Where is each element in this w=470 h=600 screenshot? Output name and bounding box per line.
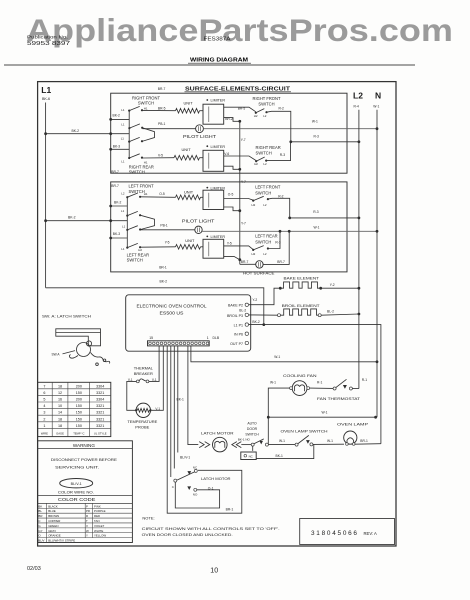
svg-text:WARNING: WARNING (73, 443, 95, 448)
svg-text:L1: L1 (121, 123, 125, 127)
svg-text:W-1: W-1 (279, 439, 285, 443)
svg-text:WIRE: WIRE (41, 431, 48, 435)
svg-text:GRAY: GRAY (48, 529, 56, 533)
svg-text:RED: RED (94, 514, 100, 518)
wire W-1 fan to N branch (268, 388, 289, 417)
svg-text:LEFT REAR: LEFT REAR (127, 252, 149, 257)
svg-text:Publication No.: Publication No. (27, 35, 68, 41)
svg-text:L1: L1 (121, 137, 125, 141)
svg-text:PB-1: PB-1 (158, 122, 165, 126)
svg-text:O-5: O-5 (159, 192, 165, 196)
svg-text:BK-1: BK-1 (276, 454, 283, 458)
wire R-1 fan to thermostat (310, 387, 334, 389)
svg-text:3304: 3304 (96, 398, 104, 402)
switch ganged link box1 (142, 128, 155, 142)
svg-text:3321: 3321 (96, 391, 104, 395)
svg-text:6: 6 (43, 391, 45, 395)
svg-text:BR-7: BR-7 (158, 87, 166, 91)
svg-text:Y: Y (86, 534, 88, 538)
wire left rear R-3 up to W-1b (268, 231, 280, 248)
latch cam (77, 343, 91, 357)
svg-text:COLOR WIRE NO.: COLOR WIRE NO. (58, 490, 94, 494)
surface elements circuit box 2 (left front / left rear) (111, 182, 347, 272)
svg-text:5: 5 (43, 398, 45, 402)
svg-text:BROWN: BROWN (48, 514, 59, 518)
wire harness drop to latch NC (173, 346, 175, 469)
wire V-1 breaker drop (149, 346, 159, 382)
svg-text:18: 18 (58, 424, 62, 428)
svg-text:UNIT: UNIT (185, 238, 195, 243)
svg-text:COPPER: COPPER (48, 519, 60, 523)
wire limiter4 to Y-7 node (224, 256, 240, 259)
svg-text:THERMAL: THERMAL (134, 366, 154, 371)
svg-text:LIMITER: LIMITER (211, 99, 226, 103)
svg-text:L2: L2 (121, 191, 125, 195)
svg-text:OVEN DOOR CLOSED AND UNLOCKED.: OVEN DOOR CLOSED AND UNLOCKED. (142, 533, 233, 537)
svg-text:LATCH MOTOR: LATCH MOTOR (201, 477, 231, 481)
svg-text:02/03: 02/03 (27, 566, 41, 572)
svg-text:BLUE: BLUE (48, 509, 56, 513)
wire W-1 down to door switch row (267, 417, 269, 444)
svg-text:LATCH MOTOR: LATCH MOTOR (201, 432, 234, 436)
svg-text:BK-2: BK-2 (72, 129, 80, 133)
svg-text:L1: L1 (121, 108, 125, 112)
temperature probe (resistor) (136, 403, 150, 417)
svg-text:C: C (38, 519, 40, 523)
svg-text:W-1: W-1 (312, 120, 318, 124)
svg-text:3321: 3321 (96, 404, 104, 408)
hot surface indicator lamp (256, 261, 263, 268)
svg-text:T: T (86, 519, 88, 523)
svg-text:15: 15 (149, 336, 153, 340)
svg-text:59953 8397: 59953 8397 (27, 41, 70, 47)
svg-text:NOTE:: NOTE: (142, 516, 154, 521)
svg-text:BR-5: BR-5 (158, 107, 166, 111)
svg-text:GY: GY (38, 529, 42, 533)
svg-text:R-4: R-4 (354, 105, 359, 109)
svg-text:BK-3: BK-3 (113, 144, 120, 148)
svg-text:18: 18 (58, 384, 62, 388)
svg-text:H1: H1 (144, 192, 148, 196)
svg-text:WHITE: WHITE (94, 529, 103, 533)
svg-text:150: 150 (76, 417, 82, 421)
latch motor switch NO contact (187, 486, 191, 490)
svg-text:ES500 US: ES500 US (160, 311, 184, 316)
svg-text:L1 P1: L1 P1 (234, 324, 243, 328)
svg-text:VIOLET: VIOLET (94, 524, 105, 528)
svg-text:BROIL ELEMENT: BROIL ELEMENT (282, 304, 321, 308)
svg-text:SWITCH: SWITCH (255, 191, 271, 196)
svg-text:REV: A: REV: A (364, 531, 378, 536)
wire latch motor loop (175, 482, 219, 508)
svg-text:L1: L1 (121, 160, 125, 164)
svg-text:SWITCH: SWITCH (129, 169, 145, 174)
svg-text:14: 14 (58, 411, 62, 415)
svg-text:L1: L1 (121, 209, 125, 213)
svg-text:150: 150 (76, 411, 82, 415)
svg-text:COOLING FAN: COOLING FAN (283, 374, 317, 378)
svg-text:TEMP °C: TEMP °C (73, 431, 84, 435)
svg-text:SERVICING UNIT.: SERVICING UNIT. (55, 464, 99, 469)
svg-text:SURFACE-ELEMENTS-CIRCUIT: SURFACE-ELEMENTS-CIRCUIT (185, 86, 290, 92)
svg-text:150: 150 (76, 424, 82, 428)
svg-text:Y-5: Y-5 (227, 241, 232, 245)
svg-text:BL/V-1: BL/V-1 (71, 482, 82, 486)
svg-text:L1: L1 (122, 225, 126, 229)
svg-text:SW. A: LATCH SWITCH: SW. A: LATCH SWITCH (42, 313, 91, 318)
svg-text:200: 200 (76, 384, 82, 388)
svg-text:BK: BK (38, 504, 42, 508)
svg-text:10: 10 (210, 568, 218, 575)
svg-text:R-2: R-2 (279, 106, 284, 110)
svg-text:L1: L1 (121, 247, 125, 251)
svg-text:7: 7 (43, 384, 45, 388)
svg-text:PILOT LIGHT: PILOT LIGHT (183, 134, 216, 139)
svg-text:H2: H2 (254, 114, 258, 118)
svg-text:OVEN LAMP: OVEN LAMP (337, 423, 369, 427)
svg-text:AUTO: AUTO (247, 422, 257, 426)
limiter 1 (right front) (206, 99, 208, 101)
main diagram border (38, 82, 396, 546)
svg-text:W-1: W-1 (322, 411, 328, 415)
svg-text:L2: L2 (263, 114, 267, 118)
svg-text:R-1: R-1 (362, 378, 367, 382)
svg-text:HOT SURFACE: HOT SURFACE (243, 271, 275, 275)
svg-text:W: W (86, 529, 89, 533)
svg-text:BK-2: BK-2 (252, 320, 259, 324)
part number box 318045066 (300, 519, 395, 545)
svg-text:BK-6: BK-6 (42, 97, 50, 101)
color wire no oval (60, 479, 93, 488)
svg-text:FES387A: FES387A (204, 37, 232, 43)
switch ganged link box2 (140, 215, 154, 229)
svg-text:PILOT LIGHT: PILOT LIGHT (182, 218, 215, 223)
color code table (46, 503, 48, 537)
svg-text:BL/V-1: BL/V-1 (180, 456, 190, 460)
wire pair3 to pilot light 2 (140, 229, 195, 231)
svg-text:BL-2: BL-2 (327, 309, 334, 313)
svg-text:W-1: W-1 (270, 381, 276, 385)
svg-text:BLU/WHT/V STRIPE: BLU/WHT/V STRIPE (48, 539, 75, 543)
svg-text:UL STYLE: UL STYLE (94, 431, 107, 435)
svg-text:DISCONNECT POWER BEFORE: DISCONNECT POWER BEFORE (51, 457, 117, 462)
svg-text:3304: 3304 (96, 384, 104, 388)
svg-text:BK-1 NO: BK-1 NO (238, 437, 251, 441)
svg-text:OUT P7: OUT P7 (230, 342, 243, 346)
svg-text:BROIL P3: BROIL P3 (227, 314, 243, 318)
svg-text:PURPLE: PURPLE (94, 509, 106, 513)
svg-text:BK-2: BK-2 (160, 280, 168, 284)
svg-text:PB-1: PB-1 (160, 223, 167, 227)
svg-text:BK-2: BK-2 (114, 200, 121, 204)
svg-text:18: 18 (58, 417, 62, 421)
svg-text:YELLOW: YELLOW (94, 534, 106, 538)
svg-text:BLACK: BLACK (48, 504, 58, 508)
svg-text:OVEN LAMP SWITCH: OVEN LAMP SWITCH (281, 429, 328, 433)
svg-text:COLOR CODE: COLOR CODE (58, 497, 96, 502)
svg-text:O-5: O-5 (228, 193, 234, 197)
svg-text:BL-2: BL-2 (239, 308, 246, 312)
svg-text:1: 1 (207, 336, 209, 340)
svg-text:BR: BR (38, 514, 42, 518)
svg-text:FAN THERMOSTAT: FAN THERMOSTAT (317, 397, 361, 401)
svg-text:R-1: R-1 (317, 381, 322, 385)
svg-text:W-1: W-1 (373, 105, 379, 109)
svg-text:GREEN: GREEN (48, 524, 58, 528)
svg-text:BK-3: BK-3 (113, 232, 120, 236)
svg-text:LEFT FRONT: LEFT FRONT (255, 184, 281, 189)
svg-text:BL: BL (38, 509, 42, 513)
svg-text:3321: 3321 (96, 411, 104, 415)
svg-text:BR-1: BR-1 (159, 265, 167, 269)
wire BL/V-1 drop (177, 346, 179, 453)
box1 internal left connector vertical (128, 111, 130, 158)
svg-text:BR-1: BR-1 (226, 508, 234, 512)
svg-text:R: R (86, 514, 88, 518)
svg-text:150: 150 (76, 404, 82, 408)
svg-text:BAKE P2: BAKE P2 (228, 304, 243, 308)
svg-text:LIMITER: LIMITER (211, 186, 226, 190)
svg-text:SWITCH: SWITCH (127, 258, 143, 263)
svg-text:10: 10 (58, 404, 62, 408)
svg-text:L2: L2 (263, 203, 267, 207)
svg-text:3321: 3321 (96, 417, 104, 421)
surface elements circuit box 1 (right front / right rear) (111, 93, 347, 173)
warning box (38, 441, 133, 543)
svg-text:12: 12 (58, 391, 62, 395)
svg-text:RIGHT FRONT: RIGHT FRONT (132, 95, 160, 100)
svg-text:LIMITER: LIMITER (211, 145, 226, 149)
svg-text:H2: H2 (252, 203, 256, 207)
svg-text:Y-7: Y-7 (241, 222, 246, 226)
svg-text:16: 16 (58, 398, 62, 402)
svg-text:GAGE: GAGE (56, 431, 64, 435)
wire harness drop to latch box (167, 346, 242, 513)
svg-text:BL/V: BL/V (38, 539, 44, 543)
svg-text:L2: L2 (353, 91, 363, 101)
svg-text:SWITCH: SWITCH (255, 240, 271, 245)
wire Y-7 to hot surface lamp (240, 263, 256, 265)
svg-text:4: 4 (43, 404, 45, 408)
wire L2 vertical (358, 110, 360, 389)
svg-text:BR-7: BR-7 (241, 260, 249, 264)
pilot light 1 (196, 125, 204, 133)
svg-text:W-1: W-1 (274, 355, 280, 359)
svg-text:UNIT: UNIT (184, 100, 194, 105)
svg-text:Y-2: Y-2 (252, 298, 257, 302)
svg-text:L2: L2 (263, 252, 267, 256)
svg-text:Y-5: Y-5 (165, 241, 170, 245)
svg-text:318045066: 318045066 (311, 530, 359, 537)
svg-text:H2: H2 (252, 252, 256, 256)
svg-text:BR-7: BR-7 (277, 260, 285, 264)
svg-text:ELECTRONIC OVEN CONTROL: ELECTRONIC OVEN CONTROL (137, 304, 208, 309)
svg-text:IN P6: IN P6 (234, 333, 243, 337)
wire gauge table (38, 382, 111, 436)
svg-text:Y-7: Y-7 (241, 138, 246, 142)
svg-text:NC: NC (249, 454, 253, 458)
box2 internal left connector vertical (126, 197, 128, 247)
svg-text:TAN: TAN (94, 519, 100, 523)
svg-text:BR-7: BR-7 (111, 184, 119, 188)
svg-text:H2: H2 (254, 162, 258, 166)
svg-text:NO: NO (193, 493, 198, 497)
svg-text:BR-1: BR-1 (360, 439, 368, 443)
svg-text:N: N (375, 91, 381, 101)
latch spring squiggle (91, 353, 110, 364)
svg-text:BREAKER: BREAKER (134, 371, 153, 376)
svg-text:W-1: W-1 (327, 439, 333, 443)
wire limiter3 to Y-7 node (224, 207, 240, 211)
svg-text:SWITCH: SWITCH (245, 433, 259, 437)
svg-text:R-3: R-3 (280, 153, 285, 157)
latch motor switch C contact (174, 479, 177, 482)
svg-text:UNIT: UNIT (184, 190, 194, 195)
limiter 4 (left rear) (206, 236, 208, 238)
svg-text:ORANGE: ORANGE (48, 534, 61, 538)
svg-text:SWITCH: SWITCH (138, 101, 154, 106)
svg-text:PR: PR (86, 509, 90, 513)
svg-text:BK-1: BK-1 (177, 397, 184, 401)
svg-text:P: P (86, 504, 88, 508)
svg-text:DOOR: DOOR (247, 427, 258, 431)
svg-text:R-3: R-3 (314, 134, 319, 138)
wire breaker to probe (127, 381, 137, 410)
svg-text:BR-7: BR-7 (111, 170, 119, 174)
svg-text:W-1: W-1 (314, 226, 320, 230)
svg-text:BK-2: BK-2 (68, 216, 76, 220)
svg-text:PROBE: PROBE (135, 424, 149, 429)
svg-text:3321: 3321 (96, 424, 104, 428)
svg-text:V-1: V-1 (155, 407, 160, 411)
connector chevrons latch motor (199, 442, 210, 448)
svg-text:200: 200 (76, 398, 82, 402)
header rule (4, 64, 415, 66)
svg-text:AppliancePartsPros.com: AppliancePartsPros.com (26, 12, 453, 48)
svg-text:LIMITER: LIMITER (211, 235, 226, 239)
svg-text:L2: L2 (263, 162, 267, 166)
svg-text:BK-2: BK-2 (113, 114, 120, 118)
svg-text:LEFT FRONT: LEFT FRONT (129, 184, 155, 189)
limiter 2 (right rear) (206, 145, 208, 147)
electronic oven control ES500 US (U1) (126, 295, 251, 351)
wire limiter2 to Y-7 node (224, 166, 240, 169)
wire harness drop to latch C (170, 346, 172, 477)
svg-text:WIRING DIAGRAM: WIRING DIAGRAM (190, 57, 248, 63)
svg-text:V: V (86, 524, 88, 528)
svg-text:3: 3 (43, 411, 45, 415)
svg-text:2: 2 (43, 417, 45, 421)
svg-text:CIRCUIT SHOWN WITH ALL CONTROL: CIRCUIT SHOWN WITH ALL CONTROLS SET TO '… (142, 527, 280, 531)
svg-text:SWITCH: SWITCH (258, 101, 274, 106)
svg-text:V-5: V-5 (158, 153, 163, 157)
svg-text:SWITCH: SWITCH (256, 150, 272, 155)
svg-text:L1: L1 (41, 85, 51, 95)
wire V-1 probe drop (152, 346, 164, 410)
svg-text:PINK: PINK (94, 504, 101, 508)
svg-text:150: 150 (76, 391, 82, 395)
svg-text:SW.A: SW.A (52, 353, 61, 357)
svg-text:1: 1 (43, 424, 45, 428)
svg-text:UNIT: UNIT (182, 147, 192, 152)
svg-text:DLB: DLB (213, 336, 220, 340)
svg-text:R-3: R-3 (313, 210, 318, 214)
svg-text:LEFT REAR: LEFT REAR (255, 234, 277, 239)
svg-text:V-1: V-1 (152, 378, 157, 382)
svg-text:Y-2: Y-2 (330, 283, 335, 287)
limiter 3 (left front) (206, 187, 208, 189)
svg-text:BAKE ELEMENT: BAKE ELEMENT (284, 277, 320, 281)
wire N vertical (376, 110, 378, 417)
svg-text:RIGHT FRONT: RIGHT FRONT (253, 96, 281, 101)
auto door switch NC branch box (241, 452, 256, 460)
wire left front R-2 down to R-3b (268, 198, 290, 218)
